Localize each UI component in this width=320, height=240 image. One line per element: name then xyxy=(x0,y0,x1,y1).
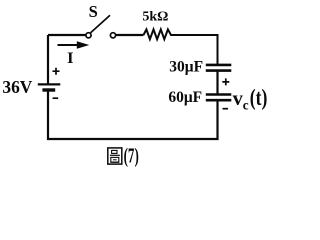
svg-text:36V: 36V xyxy=(2,77,32,97)
svg-text:(7): (7) xyxy=(124,143,139,167)
svg-text:(t): (t) xyxy=(250,85,268,111)
svg-text:30μF: 30μF xyxy=(169,59,203,76)
svg-text:S: S xyxy=(89,2,98,21)
svg-text:I: I xyxy=(67,48,73,67)
svg-text:5kΩ: 5kΩ xyxy=(142,10,168,25)
svg-text:60μF: 60μF xyxy=(168,89,202,106)
